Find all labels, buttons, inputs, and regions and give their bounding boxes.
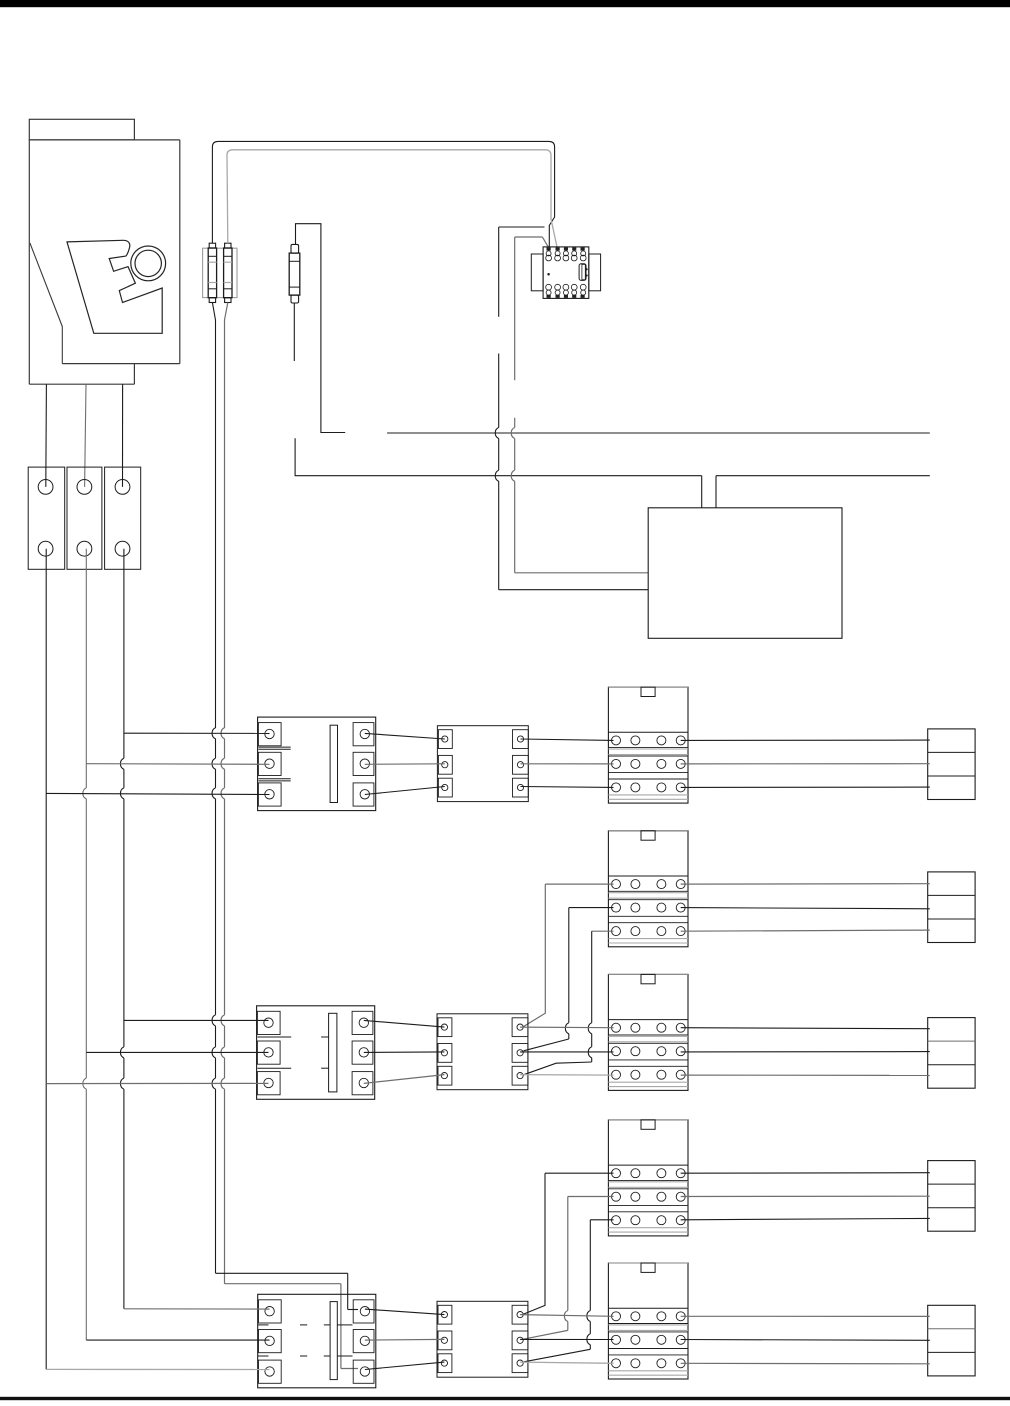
fuse F3 <box>289 244 300 303</box>
wire TBE out c <box>681 1362 930 1365</box>
load boxes row5 <box>928 1305 975 1376</box>
terminal strip TS2 <box>437 1014 528 1090</box>
feeder wire L1 vertical <box>45 549 47 1370</box>
wire F1 down lower <box>212 739 215 1274</box>
loop inner wire <box>227 150 557 247</box>
riser TS3-TBD b <box>523 1197 568 1340</box>
wire F2 down lower <box>221 739 224 1284</box>
wire F1 bottom corner <box>216 1272 348 1274</box>
wire TBC out b <box>681 1051 930 1053</box>
wire to box upper <box>515 572 649 574</box>
page bottom rule <box>0 1397 1010 1400</box>
terminal block TB-D <box>608 1120 688 1236</box>
terminal block TB-B <box>608 831 688 947</box>
terminal block TB-C <box>608 974 688 1090</box>
connector block U1 <box>531 247 600 299</box>
control box lead 2 <box>715 476 717 508</box>
wire TBB out c <box>681 930 930 931</box>
wire TBA out b <box>681 763 930 765</box>
riser TS3-TBD c <box>523 1220 590 1362</box>
load boxes row2 <box>928 872 975 943</box>
wire L2 to C2 mid <box>86 1051 268 1053</box>
wire TS3-TBE a <box>520 1315 613 1317</box>
wire C2-TS2 b <box>364 1051 445 1054</box>
wire L3 to C2 top <box>124 1019 269 1021</box>
wire C2-TS2 c <box>364 1075 445 1084</box>
wire stub h227 <box>499 226 545 228</box>
terminal block TB-A <box>608 687 688 803</box>
vertical drop B <box>514 237 516 380</box>
wire C3-TS3 c <box>365 1362 445 1369</box>
terminal strip TS1 <box>437 726 528 802</box>
bus1 horizontal <box>387 432 930 434</box>
wire TBB in b <box>569 907 614 909</box>
wire TBA out a <box>681 739 930 741</box>
wire F2 bottom corner <box>225 1283 341 1285</box>
hop F1 at row1 <box>212 728 215 739</box>
control box lead 1 <box>701 476 703 508</box>
wire C2-TS2 a <box>364 1020 445 1027</box>
wire L2 to C1 mid <box>86 763 269 766</box>
wire stub h237 <box>515 237 549 247</box>
feeder L3 corner <box>123 1308 125 1310</box>
wire F3 top hook <box>296 224 346 433</box>
wire L2 to C3 mid <box>86 1339 269 1341</box>
wire F1 down <box>212 303 215 729</box>
page top rule <box>0 0 1010 7</box>
wire TS2-TBC b <box>520 1051 613 1053</box>
wire TS1-TBA c <box>521 786 614 789</box>
vertical drop A <box>498 227 500 317</box>
meter logo emblem <box>67 240 162 333</box>
wire to box lower <box>499 589 649 591</box>
wire TBD in c <box>590 1219 613 1221</box>
meter drop wire L2 <box>85 384 86 487</box>
control box <box>648 508 842 639</box>
vertical drop B lower <box>511 418 514 573</box>
wire TBD in b <box>568 1196 614 1198</box>
contactor C1 <box>258 717 376 811</box>
wire F3 bottom stub <box>293 303 295 361</box>
meter drop wire L1 <box>45 384 48 487</box>
wire TS1-TBA b <box>521 763 614 765</box>
vertical drop A lower <box>495 354 498 590</box>
wire TS3-TBE b <box>520 1338 613 1340</box>
wire TBD in a <box>545 1172 614 1174</box>
feeder wire L2 vertical <box>83 549 86 1340</box>
utility meter box <box>29 119 180 384</box>
meter drop wire L3 <box>122 384 124 487</box>
wire L1 to C1 bot <box>46 793 269 794</box>
feeder wire L3 vertical <box>120 549 123 1309</box>
wire TS3-TBE c <box>520 1362 613 1363</box>
wire C3-TS3 a <box>365 1309 445 1315</box>
wire C3-TS3 b <box>365 1338 445 1341</box>
wire L3 to C3 top <box>124 1308 270 1310</box>
bus2 left riser <box>295 438 702 476</box>
wire TBE out b <box>681 1339 930 1342</box>
meter dial outer circle <box>131 246 166 281</box>
wire TBB in a <box>545 883 613 885</box>
riser TS2-TBB a <box>524 884 546 1026</box>
wire TBD out a <box>681 1172 930 1175</box>
wire L3 to C1 top <box>124 732 270 734</box>
hop F2 at row1 <box>221 728 224 739</box>
wire TS2-TBC a <box>520 1026 613 1029</box>
wire TBD out b <box>681 1195 930 1197</box>
wire TBC out c <box>681 1074 930 1076</box>
load boxes row3 <box>928 1018 975 1089</box>
wire L1 to C2 bot <box>46 1082 268 1084</box>
main terminal block TB1 <box>28 467 141 569</box>
wire TBE out a <box>681 1315 930 1317</box>
terminal block TB-E <box>608 1263 688 1379</box>
riser TS2-TBB c <box>524 931 592 1075</box>
contactor C2 <box>257 1006 375 1100</box>
wire C1-TS1 a <box>365 733 445 739</box>
load boxes row1 <box>928 729 975 800</box>
wire F1 stub down <box>348 1273 358 1309</box>
riser TS3-TBD a <box>523 1173 545 1314</box>
terminal strip TS3 <box>437 1301 528 1377</box>
wire TBA out c <box>681 786 930 788</box>
wire C1-TS1 c <box>365 787 445 795</box>
loop outer wire <box>212 141 554 247</box>
wire L1 to C3 bot <box>46 1368 269 1370</box>
wire TBB out b <box>681 908 930 909</box>
wire TS2-TBC c <box>520 1074 613 1077</box>
wire TBB out a <box>681 883 930 885</box>
meter dial inner circle <box>135 250 161 276</box>
wire TBB in c <box>592 930 614 932</box>
load boxes row4 <box>928 1161 975 1232</box>
wire TBC out a <box>681 1028 930 1029</box>
riser TS2-TBB b <box>524 908 569 1051</box>
bus2 right segment <box>716 475 930 477</box>
wire F2 stub down <box>341 1284 358 1369</box>
wire F2 down <box>225 303 228 729</box>
wire TS1-TBA a <box>521 739 614 740</box>
wire TBD out c <box>681 1218 930 1219</box>
fuse pair F1 F2 <box>203 243 237 302</box>
wire C1-TS1 b <box>365 763 445 766</box>
contactor C3 <box>258 1294 376 1388</box>
